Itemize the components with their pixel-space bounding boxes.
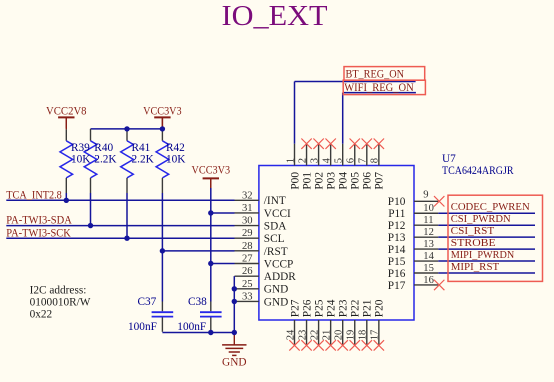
svg-text:SCL: SCL: [264, 233, 285, 245]
svg-text:25: 25: [242, 279, 253, 290]
svg-text:P05: P05: [350, 172, 362, 190]
svg-text:P07: P07: [374, 172, 386, 190]
svg-text:P24: P24: [325, 299, 337, 317]
svg-text:18: 18: [358, 330, 369, 341]
svg-text:WIFI_REG_ON: WIFI_REG_ON: [344, 82, 414, 94]
svg-text:32: 32: [242, 190, 253, 201]
svg-text:21: 21: [321, 330, 332, 341]
svg-text:CODEC_PWREN: CODEC_PWREN: [451, 201, 530, 213]
svg-text:0x22: 0x22: [30, 308, 53, 320]
svg-text:29: 29: [242, 228, 253, 239]
svg-text:VCC2V8: VCC2V8: [46, 106, 87, 118]
svg-text:P02: P02: [313, 172, 325, 190]
svg-text:1: 1: [285, 158, 296, 163]
svg-text:GND: GND: [222, 356, 246, 368]
svg-text:P14: P14: [388, 244, 406, 256]
svg-text:10K: 10K: [71, 153, 91, 165]
svg-text:100nF: 100nF: [128, 321, 157, 333]
svg-text:P10: P10: [388, 196, 406, 208]
svg-text:3: 3: [309, 158, 320, 163]
svg-text:GND: GND: [264, 296, 288, 308]
svg-text:C37: C37: [138, 296, 157, 308]
svg-text:P15: P15: [388, 256, 406, 268]
svg-text:7: 7: [358, 158, 369, 163]
svg-text:P23: P23: [338, 299, 350, 317]
svg-text:P03: P03: [325, 172, 337, 190]
svg-text:P17: P17: [388, 280, 406, 292]
svg-text:MIPI_RST: MIPI_RST: [451, 261, 500, 273]
svg-text:VCC3V3: VCC3V3: [192, 165, 231, 177]
svg-text:2: 2: [297, 158, 308, 163]
svg-text:/INT: /INT: [264, 195, 286, 207]
svg-text:P01: P01: [301, 172, 313, 190]
svg-text:P12: P12: [388, 220, 406, 232]
svg-text:16: 16: [423, 275, 434, 286]
svg-text:17: 17: [370, 330, 381, 341]
svg-text:31: 31: [242, 203, 253, 214]
svg-text:I2C address:: I2C address:: [30, 284, 87, 296]
svg-text:33: 33: [242, 291, 253, 302]
svg-text:PA-TWI3-SCK: PA-TWI3-SCK: [6, 227, 71, 239]
svg-text:23: 23: [297, 330, 308, 341]
svg-text:CSI_RST: CSI_RST: [451, 225, 495, 237]
svg-text:/RST: /RST: [264, 246, 288, 258]
svg-text:20: 20: [334, 330, 345, 341]
svg-text:P16: P16: [388, 268, 406, 280]
svg-text:P06: P06: [362, 172, 374, 190]
svg-text:C38: C38: [188, 296, 207, 308]
svg-text:100nF: 100nF: [177, 321, 206, 333]
svg-text:24: 24: [285, 329, 296, 340]
svg-text:12: 12: [423, 227, 434, 238]
svg-text:2.2K: 2.2K: [132, 153, 155, 165]
svg-text:11: 11: [423, 215, 433, 226]
svg-text:GND: GND: [264, 284, 288, 296]
svg-text:P20: P20: [374, 299, 386, 317]
svg-text:P11: P11: [388, 208, 405, 220]
svg-text:9: 9: [423, 190, 428, 201]
svg-text:BT_REG_ON: BT_REG_ON: [346, 68, 405, 80]
svg-text:P00: P00: [289, 172, 301, 190]
svg-text:10K: 10K: [166, 153, 186, 165]
svg-text:5: 5: [334, 158, 345, 163]
svg-text:CSI_PWRDN: CSI_PWRDN: [451, 213, 511, 225]
svg-text:TCA_INT2.8: TCA_INT2.8: [6, 189, 62, 201]
svg-text:P22: P22: [350, 299, 362, 317]
svg-text:P04: P04: [338, 172, 350, 190]
svg-text:VCCI: VCCI: [264, 208, 291, 220]
svg-text:IO_EXT: IO_EXT: [222, 1, 328, 32]
svg-text:19: 19: [346, 330, 357, 341]
svg-text:VCC3V3: VCC3V3: [143, 106, 182, 118]
svg-text:PA-TWI3-SDA: PA-TWI3-SDA: [6, 215, 72, 227]
svg-text:P26: P26: [301, 299, 313, 317]
svg-text:P25: P25: [313, 299, 325, 317]
svg-text:14: 14: [423, 251, 434, 262]
svg-text:10: 10: [423, 203, 434, 214]
svg-text:4: 4: [321, 157, 332, 163]
svg-text:22: 22: [309, 330, 320, 341]
svg-text:15: 15: [423, 263, 434, 274]
svg-text:27: 27: [242, 254, 253, 265]
svg-text:SDA: SDA: [264, 220, 287, 232]
svg-text:TCA6424ARGJR: TCA6424ARGJR: [442, 164, 514, 177]
svg-text:13: 13: [423, 239, 434, 250]
svg-text:28: 28: [242, 241, 253, 252]
svg-text:0100010R/W: 0100010R/W: [30, 296, 91, 308]
svg-text:P13: P13: [388, 232, 406, 244]
svg-text:VCCP: VCCP: [264, 258, 294, 270]
svg-text:30: 30: [242, 216, 253, 227]
svg-text:26: 26: [242, 266, 253, 277]
svg-text:ADDR: ADDR: [264, 271, 296, 283]
svg-text:2.2K: 2.2K: [94, 153, 117, 165]
svg-text:8: 8: [370, 158, 381, 163]
svg-text:P27: P27: [289, 299, 301, 317]
svg-text:P21: P21: [362, 300, 374, 318]
svg-text:MIPI_PWRDN: MIPI_PWRDN: [451, 249, 515, 261]
svg-text:6: 6: [346, 158, 357, 163]
svg-text:STROBE: STROBE: [451, 237, 496, 249]
